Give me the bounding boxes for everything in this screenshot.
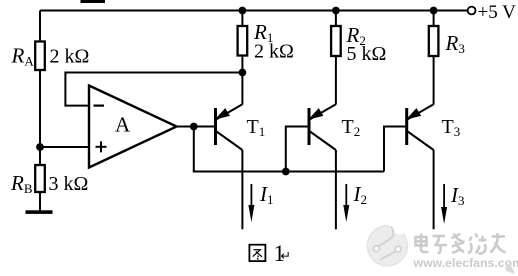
junction node rail to R2 [332,7,340,15]
svg-text:2 kΩ: 2 kΩ [254,41,294,63]
transistor T1 [216,104,243,150]
junction node RA/RB/+input [36,143,44,151]
op-amp minus sign [94,104,105,106]
wire riser to T2 base [286,127,308,172]
watermark text dianzifashaoyou hand drawn [416,233,506,254]
watermark logo disc [367,213,411,266]
watermark corner mark [505,262,515,274]
caption glyph tu (figure) hand drawn [249,245,265,261]
junction node base bus to T2 [282,168,290,176]
junction node rail to R3 [430,7,438,15]
wire RB to ground [39,192,41,211]
wire rail to R2 [335,11,337,27]
+5V terminal circle [468,7,476,15]
resistor R3 [429,26,439,56]
op-amp plus sign [96,141,107,152]
wire riser to T3 base [384,127,406,172]
wire R1 to T1 emitter [241,56,243,105]
svg-text:www.elecfans.com: www.elecfans.com [413,256,518,270]
resistor R1 [238,26,248,56]
junction node op-amp output [190,123,198,131]
wire output node down [193,127,195,172]
op-amp A triangle [89,86,177,168]
svg-text:3 kΩ: 3 kΩ [49,173,89,195]
wire T2 collector down [335,150,337,229]
wire RA to RB with node to op-amp + [39,70,41,165]
wire T1 collector down [241,150,243,229]
transistor T3 [407,104,434,150]
transistor T2 [309,104,336,150]
wire R3 to T3 emitter [433,56,435,105]
svg-text:A: A [115,113,131,137]
wire R2 to T2 emitter [335,56,337,105]
resistor RA [35,42,45,71]
svg-text:↵: ↵ [281,249,291,263]
+5V supply rail wire [40,10,468,12]
current arrow I2 [343,184,349,222]
resistor RB [35,165,45,192]
current arrow I3 [441,184,447,224]
wire op-amp output to T1 base [177,126,215,128]
current arrow I1 [248,184,254,222]
resistor R2 [331,26,341,56]
wire minus input feedback to R1/T1 emitter node [65,73,242,106]
wire rail to RA [39,11,41,42]
wire base bus horizontal [193,171,384,173]
ground [26,210,53,214]
svg-text:5 kΩ: 5 kΩ [347,43,387,65]
wire plus input to RA/RB node [40,146,89,148]
wire rail to R1 [241,11,243,27]
junction node rail to R1 [239,7,247,15]
wire T3 collector down [433,150,435,229]
cropped text artifact top edge [81,0,106,3]
svg-text:2 kΩ: 2 kΩ [50,46,90,68]
wire rail to R3 [433,11,435,27]
junction node feedback/R1/T1 emitter [239,69,247,77]
svg-text:+5 V: +5 V [478,2,517,23]
